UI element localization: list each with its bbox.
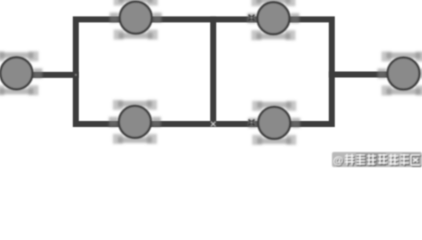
junction dot at left stub — [75, 74, 77, 76]
node A2 (top-right unit) — [257, 2, 289, 34]
connection speck on west handle of node B2 — [251, 122, 253, 124]
watermark plate — [332, 152, 422, 167]
connection cross left of node B2 — [249, 120, 255, 126]
node B1 (bottom-left unit) — [119, 106, 151, 138]
node IN (source) — [0, 57, 32, 89]
node A1 (top-left unit) — [120, 2, 152, 34]
selection handles of node IN (source) — [0, 51, 42, 95]
watermark text "@...技术社区" (simulated glyphs) — [333, 154, 421, 168]
wire: middle vertical divider — [210, 16, 216, 127]
selection handles of node OUT (sink) — [378, 52, 422, 96]
wire: outer rectangle loop (left riser, top rail, right riser, bottom rail) — [76, 19, 332, 124]
node B2 (bottom-right unit) — [258, 107, 290, 139]
wire: right output stub — [329, 72, 404, 78]
junction marker at bottom of middle divider — [211, 122, 216, 127]
selection handles of node B1 (bottom-left unit) — [109, 100, 161, 144]
node OUT (sink) — [388, 58, 420, 90]
svg-text:@: @ — [333, 155, 343, 167]
wire: left input stub — [14, 72, 79, 78]
connection speck on west handle of node A2 — [251, 17, 253, 19]
connection cross left of node A2 — [249, 15, 255, 21]
selection handles of node A2 (top-right unit) — [247, 0, 299, 40]
selection handles of node A1 (top-left unit) — [110, 0, 162, 40]
selection handles of node B2 (bottom-right unit) — [248, 101, 300, 145]
